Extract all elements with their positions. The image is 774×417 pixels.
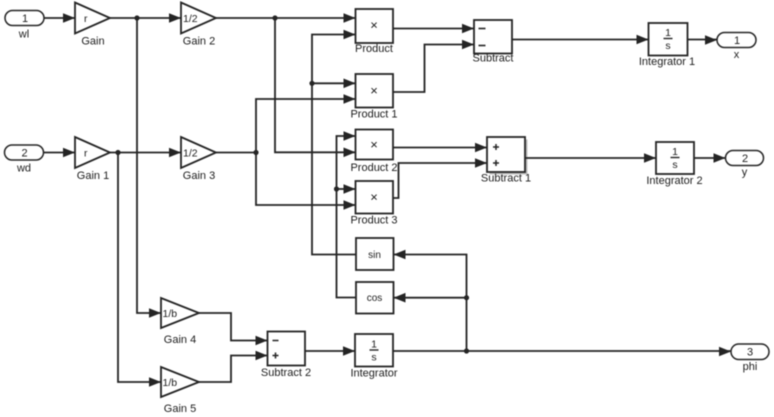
sin block xyxy=(356,238,394,270)
cos block xyxy=(356,282,394,314)
svg-text:y: y xyxy=(742,167,748,179)
junction dot on Gain 3 output xyxy=(253,150,258,155)
wire junction down to Product 3 input 2 xyxy=(256,153,356,210)
wire Gain 2 junction down to Product 2 input 2 xyxy=(275,18,356,157)
svg-text:1: 1 xyxy=(665,27,671,39)
svg-text:1: 1 xyxy=(672,146,678,158)
svg-text:Subtract: Subtract xyxy=(473,53,514,65)
svg-text:Gain: Gain xyxy=(81,36,104,48)
svg-text:1: 1 xyxy=(734,35,740,47)
output port 3 (phi) xyxy=(731,344,769,373)
svg-text:Integrator: Integrator xyxy=(350,368,397,380)
svg-text:Integrator 1: Integrator 1 xyxy=(639,56,695,68)
svg-text:Product 3: Product 3 xyxy=(350,215,397,227)
junction dot sin lane xyxy=(309,81,314,86)
svg-text:1/b: 1/b xyxy=(163,308,178,320)
output port 1 (x) xyxy=(717,33,756,62)
svg-text:Product: Product xyxy=(355,43,393,55)
integrator Integrator xyxy=(350,334,397,380)
svg-text:1: 1 xyxy=(371,339,377,351)
wire junction up to Product 1 input 2 xyxy=(256,94,356,152)
junction dot cos lane xyxy=(334,186,339,191)
wire Subtract 1 to Integrator 2 xyxy=(525,153,656,163)
product Product 1 xyxy=(350,74,397,121)
svg-text:wl: wl xyxy=(18,29,29,41)
svg-text:×: × xyxy=(370,190,378,205)
svg-text:Gain 4: Gain 4 xyxy=(164,334,196,346)
input port 1 (wl) xyxy=(5,11,44,41)
gain Gain 1 (r) xyxy=(75,137,110,182)
wire cos output to Product 2 input 1 xyxy=(337,131,357,297)
svg-text:r: r xyxy=(84,148,88,160)
wire Gain 5 to Subtract 2 input 2 xyxy=(199,351,268,382)
svg-text:1/2: 1/2 xyxy=(183,13,198,25)
wire cos lane to Product 3 input 1 xyxy=(337,184,356,194)
svg-text:Subtract 1: Subtract 1 xyxy=(481,173,531,185)
svg-text:×: × xyxy=(370,83,378,98)
wire sin output to Product input 2 xyxy=(312,30,356,255)
wire Subtract to Integrator 1 xyxy=(512,35,649,45)
svg-text:sin: sin xyxy=(368,250,381,261)
svg-text:Gain 1: Gain 1 xyxy=(77,170,109,182)
svg-text:Gain 2: Gain 2 xyxy=(183,36,215,48)
wire Gain 1 to Gain 3 xyxy=(110,148,181,158)
subtract Subtract 2 xyxy=(261,332,311,380)
subtract Subtract 1 (with drop shadow) xyxy=(481,137,531,185)
svg-text:Product 2: Product 2 xyxy=(350,162,397,174)
wire Gain junction down to Gain 4 xyxy=(137,18,161,318)
svg-text:wd: wd xyxy=(16,163,31,175)
junction dot on Integrator output xyxy=(464,348,469,353)
wire Gain 2 to Product input 1 xyxy=(216,13,356,23)
svg-text:2: 2 xyxy=(742,153,748,165)
wire Gain to Gain 2 xyxy=(110,13,181,23)
wire sin lane to Product 1 input 1 xyxy=(312,79,356,89)
gain Gain 5 (1/b) xyxy=(161,367,199,415)
svg-text:2: 2 xyxy=(21,148,27,160)
junction dot on Gain output xyxy=(134,15,139,20)
wire Gain 1 junction down to Gain 5 xyxy=(118,153,161,387)
gain Gain 4 (1/b) xyxy=(161,298,199,346)
wire port2 to Gain 1 xyxy=(44,148,76,158)
product Product xyxy=(355,9,393,55)
svg-text:Integrator 2: Integrator 2 xyxy=(646,175,702,187)
wire Integrator 1 to out port x xyxy=(688,35,718,45)
svg-text:s: s xyxy=(665,40,670,52)
svg-text:3: 3 xyxy=(747,347,753,359)
svg-text:×: × xyxy=(370,137,378,152)
subtract Subtract xyxy=(473,20,514,65)
gain Gain (r) xyxy=(75,3,110,48)
wire junction to cos input xyxy=(394,293,467,303)
svg-text:x: x xyxy=(734,49,740,61)
integrator Integrator 2 xyxy=(646,142,702,187)
product Product 2 xyxy=(350,130,397,175)
product Product 3 xyxy=(350,181,397,227)
junction dot on Gain 2 output xyxy=(272,15,277,20)
wire Integrator 2 to out port y xyxy=(694,153,726,163)
integrator Integrator 1 xyxy=(639,23,695,68)
gain Gain 2 (1/2) xyxy=(181,3,216,48)
wire junction up to sin input xyxy=(394,250,467,351)
svg-text:s: s xyxy=(672,159,677,171)
svg-text:Gain 3: Gain 3 xyxy=(183,170,215,182)
wire Product 3 to Subtract 1 input 2 xyxy=(393,158,487,198)
gain Gain 3 (1/2) xyxy=(181,137,216,182)
svg-text:Gain 5: Gain 5 xyxy=(164,403,196,415)
wire Integrator to out port phi xyxy=(393,347,731,357)
svg-text:1/2: 1/2 xyxy=(183,148,198,160)
wire Subtract 2 to Integrator xyxy=(305,346,355,356)
svg-text:s: s xyxy=(371,352,376,364)
svg-text:1/b: 1/b xyxy=(163,377,178,389)
input port 2 (wd) xyxy=(5,145,44,175)
wire Gain 3 to junction xyxy=(216,152,256,154)
svg-text:1: 1 xyxy=(22,13,28,25)
wire Gain 4 to Subtract 2 input 1 xyxy=(199,313,268,345)
junction dot on sin/cos lane xyxy=(464,295,469,300)
svg-text:cos: cos xyxy=(367,293,383,304)
svg-text:Subtract 2: Subtract 2 xyxy=(261,367,311,379)
junction dot on Gain 1 output xyxy=(115,150,120,155)
wire Product 1 to Subtract input 2 xyxy=(393,40,474,92)
wire Product 2 to Subtract 1 input 1 xyxy=(393,143,487,153)
wire Product to Subtract input 1 xyxy=(393,24,474,34)
svg-text:Product 1: Product 1 xyxy=(350,109,397,121)
output port 2 (y) xyxy=(726,151,764,179)
svg-text:×: × xyxy=(370,18,378,33)
wire port1 to Gain xyxy=(44,13,75,23)
svg-text:r: r xyxy=(84,13,88,25)
svg-text:phi: phi xyxy=(743,361,758,373)
